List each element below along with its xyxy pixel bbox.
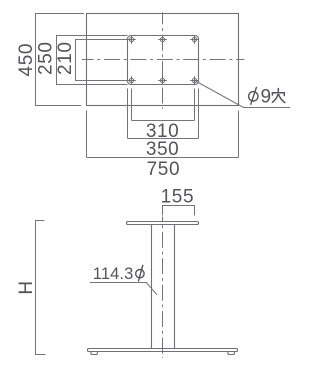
front view: column left edge bbox=[151, 225, 153, 349]
hole mark bottom-right bbox=[190, 76, 199, 85]
leader line phi9 hole bbox=[196, 81, 291, 108]
horizontal centerline bbox=[82, 59, 245, 61]
dimension H bbox=[36, 221, 46, 355]
svg-text:155: 155 bbox=[161, 187, 195, 208]
kanji hole (ana) drawn bbox=[272, 89, 284, 103]
dimension 155 bbox=[163, 206, 195, 216]
svg-text:9: 9 bbox=[261, 87, 272, 108]
dimension 310 bbox=[132, 89, 195, 121]
left foot bbox=[91, 352, 98, 355]
right foot bbox=[228, 352, 235, 355]
dimension 250 bbox=[57, 36, 128, 85]
dimension 750 bbox=[87, 111, 239, 158]
front view: top plate edge bbox=[127, 222, 199, 225]
top view: base plate outline 750x450 bbox=[87, 14, 239, 106]
svg-text:114.3: 114.3 bbox=[93, 265, 134, 283]
front view: centerline bbox=[162, 217, 164, 359]
svg-text:350: 350 bbox=[146, 139, 180, 160]
hole mark top-center bbox=[158, 35, 167, 44]
svg-text:750: 750 bbox=[147, 159, 181, 180]
leader line 114.3 bbox=[90, 283, 157, 295]
top view: mounting plate 350x250 rounded bbox=[128, 36, 199, 85]
hole mark top-left bbox=[127, 35, 136, 44]
hole mark bottom-center bbox=[158, 76, 167, 85]
svg-text:H: H bbox=[16, 280, 37, 294]
svg-text:210: 210 bbox=[55, 41, 76, 75]
svg-text:250: 250 bbox=[36, 41, 57, 75]
svg-text:450: 450 bbox=[16, 43, 37, 77]
front view: column right edge bbox=[174, 225, 176, 349]
dimension 350 bbox=[128, 89, 199, 139]
dimension 450 bbox=[36, 14, 85, 106]
vertical centerline bbox=[162, 12, 164, 109]
phi symbol of phi9 bbox=[249, 87, 258, 105]
dimension 210 bbox=[76, 40, 128, 81]
phi symbol of 114.3 bbox=[136, 265, 144, 282]
hole mark top-right bbox=[190, 35, 199, 44]
hole mark bottom-left bbox=[127, 76, 136, 85]
front view: floor plate bbox=[88, 349, 238, 355]
